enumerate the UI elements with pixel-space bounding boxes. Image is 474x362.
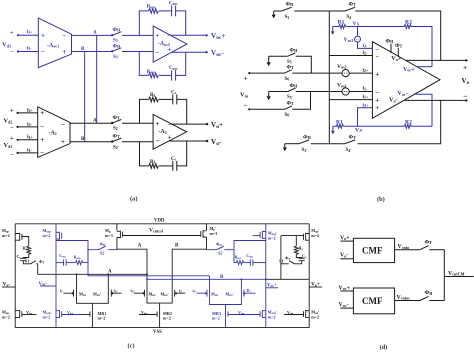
svg-text:VDD: VDD xyxy=(154,219,165,224)
wire ground to S5' xyxy=(269,91,288,93)
wire Mop gate to Rz xyxy=(22,237,29,247)
blue sampling box left xyxy=(56,241,88,266)
svg-text:+: + xyxy=(61,138,65,146)
svg-text:S2': S2' xyxy=(113,145,119,150)
transistor MR2 xyxy=(157,311,172,328)
op-amp Aoc1 xyxy=(38,18,71,68)
wire Vbn to MR3 gate blue xyxy=(228,310,260,316)
svg-text:Mn1': Mn1' xyxy=(93,291,101,297)
svg-text:Voc-: Voc- xyxy=(398,91,408,97)
wire Mn3 drains to blue buses xyxy=(210,276,242,290)
wire Mocp' gate lead blue xyxy=(253,235,260,237)
node Voc+ stub blue xyxy=(266,283,278,288)
svg-text:i3+: i3+ xyxy=(27,29,34,35)
capacitor Cosc bottom xyxy=(169,66,178,80)
svg-text:ΦT: ΦT xyxy=(39,259,44,265)
wire Vos3 to amp i3- xyxy=(358,42,373,48)
svg-text:R1: R1 xyxy=(336,119,343,125)
capacitor Cc left xyxy=(17,254,27,261)
transistor Mp xyxy=(105,224,123,238)
wire R2 to Voc+ xyxy=(411,27,432,67)
wire bottom feedback right xyxy=(176,52,186,75)
svg-text:S2': S2' xyxy=(218,251,223,256)
svg-text:Voc+: Voc+ xyxy=(267,283,277,288)
resistor R1 top xyxy=(333,20,346,29)
svg-text:Vd2: Vd2 xyxy=(4,118,13,125)
switch S2' xyxy=(112,133,122,150)
transistor MR3 xyxy=(212,311,228,328)
wire Rosc to Cosc bottom xyxy=(159,74,172,76)
wire Vin+ to S6 xyxy=(249,72,284,74)
wire i2- input xyxy=(18,126,38,128)
svg-text:Vos3: Vos3 xyxy=(344,37,354,43)
svg-text:−: − xyxy=(62,31,66,39)
node Voc+ input xyxy=(339,285,350,291)
svg-text:Cosc: Cosc xyxy=(169,2,178,7)
svg-text:−: − xyxy=(244,101,248,109)
wire VcntCM output xyxy=(444,276,473,278)
transistor Mocp' xyxy=(260,230,277,240)
svg-text:−: − xyxy=(10,48,14,55)
svg-text:Rosc: Rosc xyxy=(147,5,156,10)
svg-text:ΦH: ΦH xyxy=(290,48,299,54)
svg-text:ΦT: ΦT xyxy=(395,43,403,49)
wire top feedback right A2 xyxy=(177,99,187,124)
node Voc- xyxy=(205,49,224,58)
svg-text:−: − xyxy=(375,47,379,54)
phase tick PhiH on amp xyxy=(386,39,395,54)
svg-text:−: − xyxy=(10,125,14,132)
svg-text:−: − xyxy=(156,137,160,145)
wire i2+ input xyxy=(18,112,38,114)
svg-text:+: + xyxy=(463,62,467,71)
transistor Mp' xyxy=(201,224,217,238)
resistor R1' bottom xyxy=(333,119,343,128)
svg-text:i3-: i3- xyxy=(27,45,33,51)
svg-text:m=2: m=2 xyxy=(212,315,220,320)
wire top feedback left xyxy=(139,11,148,36)
wire Voc+ stub xyxy=(417,66,432,68)
node Vd2 input terminals xyxy=(4,108,19,132)
wire Voc+ to CMF2 xyxy=(340,290,353,292)
wire Vx node xyxy=(346,26,404,28)
svg-text:Rz: Rz xyxy=(299,246,304,252)
wire Vx' to amp i3+ xyxy=(358,108,373,127)
wire Vin- to S6' xyxy=(249,108,284,110)
svg-text:-Aoc2: -Aoc2 xyxy=(158,41,170,47)
wire Rz to Cc left xyxy=(23,254,28,258)
svg-text:S6': S6' xyxy=(285,113,291,118)
wire i2- input xyxy=(329,55,372,57)
svg-text:m=2: m=2 xyxy=(98,315,106,320)
svg-text:i2+: i2+ xyxy=(27,107,34,113)
phase tick PhiT on amp xyxy=(395,43,403,57)
wire R1' ground arrow bottom xyxy=(331,126,335,134)
svg-text:Cc: Cc xyxy=(171,157,177,162)
transistor Mop xyxy=(2,228,22,241)
node Vd1 input terminals xyxy=(4,135,19,158)
svg-text:m=3: m=3 xyxy=(210,231,218,236)
wire node X vertical xyxy=(328,11,330,144)
source Vos2 xyxy=(337,64,349,77)
wire Vo+ output xyxy=(172,123,207,125)
node Vo+ xyxy=(206,121,223,130)
wire Cc to S1 xyxy=(23,261,30,264)
svg-text:Voc+: Voc+ xyxy=(403,67,415,73)
wire Vbn to Mon' gate xyxy=(284,310,304,316)
node Vd3 input terminals xyxy=(2,30,19,56)
switch S3 xyxy=(282,2,294,21)
svg-text:m=2: m=2 xyxy=(311,314,319,319)
wire Rz' to Cc' xyxy=(296,254,301,258)
svg-text:−: − xyxy=(375,54,379,61)
svg-text:A: A xyxy=(93,118,97,123)
svg-text:(b): (b) xyxy=(377,196,385,203)
svg-text:ΦT: ΦT xyxy=(287,101,295,107)
wire A1 output A xyxy=(70,122,112,124)
wire bottom feedback left A2 xyxy=(140,142,149,166)
svg-text:m=2: m=2 xyxy=(268,235,276,240)
wire Vcnto xyxy=(395,249,420,251)
block CMF2 xyxy=(353,288,394,314)
node Vo- input xyxy=(340,253,348,259)
svg-text:Rz: Rz xyxy=(23,246,28,252)
svg-text:−: − xyxy=(41,48,45,56)
svg-text:Cc: Cc xyxy=(17,254,22,260)
svg-text:Vbn: Vbn xyxy=(287,310,294,316)
wire top feedback left A2 xyxy=(140,99,149,123)
switch S2 blue xyxy=(88,241,117,255)
node VcntCM label xyxy=(448,271,465,277)
wire i1- input xyxy=(18,152,38,154)
svg-text:Vo+: Vo+ xyxy=(340,235,350,241)
svg-text:i1-: i1- xyxy=(60,288,64,294)
node Vo- xyxy=(206,138,222,147)
transistor Mn1 xyxy=(60,288,87,297)
transistor Mocn' xyxy=(260,309,277,319)
svg-text:Vo+: Vo+ xyxy=(391,55,402,62)
wire S3 to Aoc2 xyxy=(122,34,153,36)
wire Mop' gate to bus B xyxy=(281,236,304,280)
node Vo+ stub xyxy=(309,282,322,288)
svg-text:ΦH: ΦH xyxy=(100,241,106,247)
op-amp A2 xyxy=(153,114,187,149)
resistor R2 top xyxy=(404,20,412,29)
svg-text:Vbn: Vbn xyxy=(67,310,74,316)
wire Mn3 sources xyxy=(210,297,242,311)
svg-text:m=2: m=2 xyxy=(268,314,276,319)
svg-text:S4: S4 xyxy=(347,15,352,20)
svg-text:R2: R2 xyxy=(405,20,412,26)
wire node B vertical to lower circuit xyxy=(84,52,86,142)
op-amp A1 xyxy=(38,107,70,158)
svg-text:Vo-: Vo- xyxy=(389,97,398,104)
switch S5' xyxy=(287,83,298,100)
node Vo- terminal xyxy=(465,99,467,101)
svg-text:+: + xyxy=(10,30,14,37)
source Vos3 xyxy=(344,27,361,44)
svg-text:ΦH: ΦH xyxy=(216,241,222,247)
wire Voc- output xyxy=(172,51,207,53)
wire i3+ input xyxy=(18,34,38,36)
svg-text:+: + xyxy=(375,104,379,112)
svg-text:ΦT: ΦT xyxy=(349,134,357,140)
transistor Mon' xyxy=(304,309,320,319)
svg-text:VcntCM: VcntCM xyxy=(448,271,465,277)
capacitor Cc' right xyxy=(299,254,307,261)
wire S2' to A2 xyxy=(122,141,153,143)
op-amp Aoc2 xyxy=(153,26,187,62)
svg-text:i2-: i2- xyxy=(363,50,369,56)
wire Mn1 sources xyxy=(77,297,109,311)
node B xyxy=(81,47,85,52)
transistor Mn2 xyxy=(131,288,157,297)
wire left frame xyxy=(14,224,16,328)
svg-text:i2-: i2- xyxy=(179,288,183,294)
node Voc- stub blue xyxy=(39,282,57,287)
svg-text:Mn2': Mn2' xyxy=(161,291,169,297)
svg-text:Vin: Vin xyxy=(240,92,249,99)
svg-text:i1+: i1+ xyxy=(27,134,34,140)
wire top feedback right xyxy=(176,11,186,35)
transistor Mn3 xyxy=(193,288,219,297)
op-amp main xyxy=(372,42,440,119)
svg-text:i3+: i3+ xyxy=(363,102,370,108)
svg-text:ΦT: ΦT xyxy=(349,2,357,8)
svg-text:A: A xyxy=(138,243,142,248)
wire Vbn to Mocn gate blue xyxy=(62,310,80,316)
wire S3' to S4' xyxy=(311,143,345,145)
capacitor Cosc top xyxy=(169,2,178,17)
wire S4 to Vo+ xyxy=(355,11,440,60)
svg-text:ΦT: ΦT xyxy=(113,133,121,139)
wire Voc- to CMF2 xyxy=(340,307,353,309)
ground stub S5' xyxy=(267,92,271,101)
svg-text:Vcnto: Vcnto xyxy=(398,244,410,250)
bus node A horizontal xyxy=(38,269,148,275)
svg-text:Rosc: Rosc xyxy=(147,70,156,75)
wire A1 output B xyxy=(70,141,112,143)
svg-text:Rf: Rf xyxy=(150,160,156,165)
wire S6' to join xyxy=(292,92,310,110)
svg-text:ΦT: ΦT xyxy=(113,115,121,121)
block CMF1 xyxy=(353,238,394,262)
switch S6' xyxy=(284,101,294,119)
svg-text:S6: S6 xyxy=(285,77,290,82)
wire Voc+ output xyxy=(171,34,207,36)
svg-text:+: + xyxy=(40,109,44,117)
wire Voc- node vertical xyxy=(55,224,57,328)
transistor MR1 xyxy=(90,311,106,328)
svg-text:S3': S3' xyxy=(302,148,308,153)
resistor R2' bottom xyxy=(404,119,412,128)
svg-text:−: − xyxy=(61,121,65,129)
resistor Rosc bottom xyxy=(147,70,159,78)
svg-text:ΦT: ΦT xyxy=(285,255,290,261)
svg-text:Cosc: Cosc xyxy=(246,254,253,259)
svg-text:S5: S5 xyxy=(287,60,292,65)
svg-text:Vos1: Vos1 xyxy=(337,83,347,89)
svg-text:ΦH: ΦH xyxy=(286,2,295,8)
wire node A to Mn2 drain xyxy=(117,238,147,290)
wire S2 to A2 xyxy=(122,122,153,124)
svg-text:+: + xyxy=(10,135,14,142)
svg-text:−: − xyxy=(168,120,172,128)
wire Vx' node xyxy=(343,125,404,127)
wire i3- input xyxy=(18,51,38,53)
svg-text:ΦH: ΦH xyxy=(113,27,122,33)
svg-text:+: + xyxy=(375,71,379,79)
switch S6 xyxy=(284,64,294,82)
svg-text:i1+: i1+ xyxy=(363,94,370,100)
transistor Mn3' xyxy=(226,288,256,297)
wire Voc- stub xyxy=(414,94,432,126)
wire Vo- output xyxy=(404,99,467,101)
node Voc- input xyxy=(339,302,349,308)
svg-text:S2: S2 xyxy=(100,251,104,256)
power rail VSS xyxy=(15,328,309,336)
switch S3' xyxy=(299,134,312,153)
svg-text:ΦH: ΦH xyxy=(386,39,395,45)
wire Vbn to Mon gate xyxy=(22,310,37,316)
svg-text:i1+: i1+ xyxy=(114,288,119,294)
resistor Rosc top xyxy=(147,5,159,13)
svg-text:−: − xyxy=(156,48,160,56)
svg-text:m=3: m=3 xyxy=(105,233,113,238)
svg-text:Vbn: Vbn xyxy=(238,310,245,316)
svg-text:Vo-: Vo- xyxy=(3,282,11,288)
switch S5 xyxy=(287,48,298,65)
svg-text:R1: R1 xyxy=(338,20,345,26)
ground stub S5 xyxy=(267,56,271,66)
svg-text:Voc-: Voc- xyxy=(339,302,349,308)
svg-text:m=2: m=2 xyxy=(163,315,171,320)
node Vcntoc label xyxy=(397,295,411,301)
wire join vertical xyxy=(443,250,445,301)
node Vo+ input xyxy=(340,235,350,241)
wire Mop' gate branch to Rz' xyxy=(295,236,297,246)
wire Rf to Cc bottom xyxy=(159,165,173,167)
wire i1+ input xyxy=(329,99,372,101)
bus node B right segment xyxy=(266,278,309,280)
wire Vo+ output xyxy=(406,59,467,61)
switch S1 xyxy=(25,259,44,265)
svg-text:S3: S3 xyxy=(285,15,290,20)
wire Vos1 to amp xyxy=(349,91,372,93)
wire Rosc to Cosc xyxy=(159,10,172,12)
ground stub S3 xyxy=(272,11,276,18)
switch S3 xyxy=(112,27,122,44)
svg-text:(d): (d) xyxy=(380,344,388,351)
capacitor Cc top xyxy=(171,90,177,104)
wire node A vertical to lower circuit xyxy=(96,35,98,123)
wire S6 output xyxy=(292,72,342,74)
transistor Mocn xyxy=(43,309,62,319)
transistor Mn1' xyxy=(93,288,122,297)
svg-text:D+: D+ xyxy=(247,288,252,294)
wire Cc' to S1' xyxy=(295,261,302,264)
blue sampling box right xyxy=(234,241,266,266)
svg-text:Cc: Cc xyxy=(302,254,307,260)
node Vo+ terminal xyxy=(463,59,467,71)
wire S3 to S4 xyxy=(294,10,345,12)
svg-text:+: + xyxy=(156,32,160,40)
svg-text:R2: R2 xyxy=(405,119,412,125)
wire switch to join top xyxy=(429,249,444,251)
transistor Mop' xyxy=(304,228,320,241)
svg-text:Voc+: Voc+ xyxy=(339,285,350,291)
node A xyxy=(93,31,97,36)
wire S5 to join xyxy=(296,56,312,73)
svg-text:Vcntcsl: Vcntcsl xyxy=(149,228,164,234)
wire Vbn to MR1 gate xyxy=(80,314,90,316)
wire ground to S3' xyxy=(285,143,299,145)
wire Vcntoc xyxy=(395,300,420,302)
svg-text:S1': S1' xyxy=(279,259,284,264)
svg-text:ΦT: ΦT xyxy=(287,64,295,70)
svg-text:Vcntoc: Vcntoc xyxy=(397,295,411,301)
resistor Rf bottom xyxy=(149,160,159,168)
svg-text:Mn2: Mn2 xyxy=(149,291,157,297)
svg-text:-Aoc1: -Aoc1 xyxy=(47,43,59,49)
wire blue bus B xyxy=(146,275,267,280)
resistor Rz left xyxy=(23,246,31,255)
switch S2 xyxy=(112,115,122,132)
svg-text:Vbn: Vbn xyxy=(26,310,33,316)
wire switch to join bottom xyxy=(429,300,444,302)
node B lower xyxy=(81,137,85,142)
node Vcnto label xyxy=(398,244,410,250)
capacitor Cc bottom xyxy=(171,157,177,171)
svg-text:VSS: VSS xyxy=(153,330,162,335)
transistor Mon xyxy=(2,309,22,319)
wire ground to S5 xyxy=(269,55,288,57)
wire i1+ input xyxy=(18,139,38,141)
svg-text:+: + xyxy=(168,134,172,142)
svg-text:CMF: CMF xyxy=(362,296,383,306)
wire S5' to Vos1 xyxy=(296,91,342,93)
svg-text:i1-: i1- xyxy=(363,86,369,92)
wire Vo- to CMF1 xyxy=(340,258,353,260)
wire S1 to bus A xyxy=(36,264,37,275)
svg-text:ΦH: ΦH xyxy=(303,134,312,140)
transistor Mocp xyxy=(43,228,62,240)
wire R2' to Voc- xyxy=(411,125,432,127)
wire ground to S3 xyxy=(274,10,282,12)
svg-text:VX: VX xyxy=(353,21,360,27)
svg-text:(c): (c) xyxy=(128,343,135,350)
svg-text:i2+: i2+ xyxy=(363,67,370,73)
svg-text:Vbn: Vbn xyxy=(141,310,148,316)
power rail VDD xyxy=(15,219,309,224)
svg-text:Vo+: Vo+ xyxy=(311,282,320,288)
wire Vo- output xyxy=(169,140,207,142)
svg-text:−: − xyxy=(40,123,44,131)
svg-text:Mn3: Mn3 xyxy=(211,291,219,297)
svg-text:ΦT: ΦT xyxy=(425,239,433,245)
svg-text:Voc-: Voc- xyxy=(39,282,48,287)
svg-text:+: + xyxy=(10,108,14,115)
node A lower xyxy=(93,118,97,123)
wire S3' to Aoc2 xyxy=(122,51,153,53)
wire Vcntcsl gate line xyxy=(123,228,201,236)
svg-text:A: A xyxy=(93,31,97,36)
svg-text:Mn3': Mn3' xyxy=(226,291,234,297)
svg-text:Cosc: Cosc xyxy=(169,66,178,71)
svg-text:−: − xyxy=(463,92,467,101)
node Vo- stub xyxy=(2,282,15,288)
svg-text:+: + xyxy=(244,74,248,82)
